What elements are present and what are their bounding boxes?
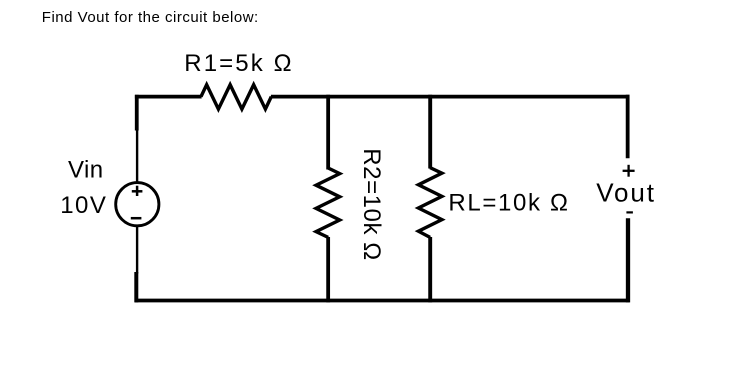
svg-text:RL=10k Ω: RL=10k Ω — [448, 190, 569, 217]
wire R2 bottom lead — [326, 237, 330, 302]
wire left vertical lead to source — [136, 130, 138, 184]
resistor R1 — [201, 85, 271, 109]
svg-text:R1=5k Ω: R1=5k Ω — [184, 50, 293, 77]
wire bottom horizontal — [135, 299, 630, 303]
svg-text:Find Vout for the circuit belo: Find Vout for the circuit below: — [42, 9, 259, 26]
wire right vertical lower — [626, 218, 630, 302]
wire top left segment — [135, 95, 202, 99]
wire top right segment — [271, 95, 630, 99]
resistor R2 — [316, 168, 340, 237]
svg-text:Vin: Vin — [68, 157, 103, 184]
Vout minus sign — [626, 211, 633, 213]
wire left vertical below source — [136, 226, 138, 274]
wire RL top lead — [428, 95, 432, 169]
Vout plus sign — [623, 165, 635, 177]
wire left vertical lower (corner elbow) — [134, 272, 138, 302]
svg-text:Vout: Vout — [596, 178, 656, 208]
source minus sign — [131, 217, 142, 220]
wire R2 top lead — [326, 95, 330, 170]
wire right vertical upper — [626, 95, 630, 159]
voltage source Vin circle — [116, 183, 159, 226]
wire left vertical upper (corner elbow) — [135, 95, 139, 131]
wire RL bottom lead — [428, 237, 432, 302]
source plus sign — [132, 186, 143, 196]
svg-text:10V: 10V — [60, 192, 107, 219]
resistor RL — [418, 168, 442, 238]
svg-text:R2=10k Ω: R2=10k Ω — [358, 148, 385, 260]
